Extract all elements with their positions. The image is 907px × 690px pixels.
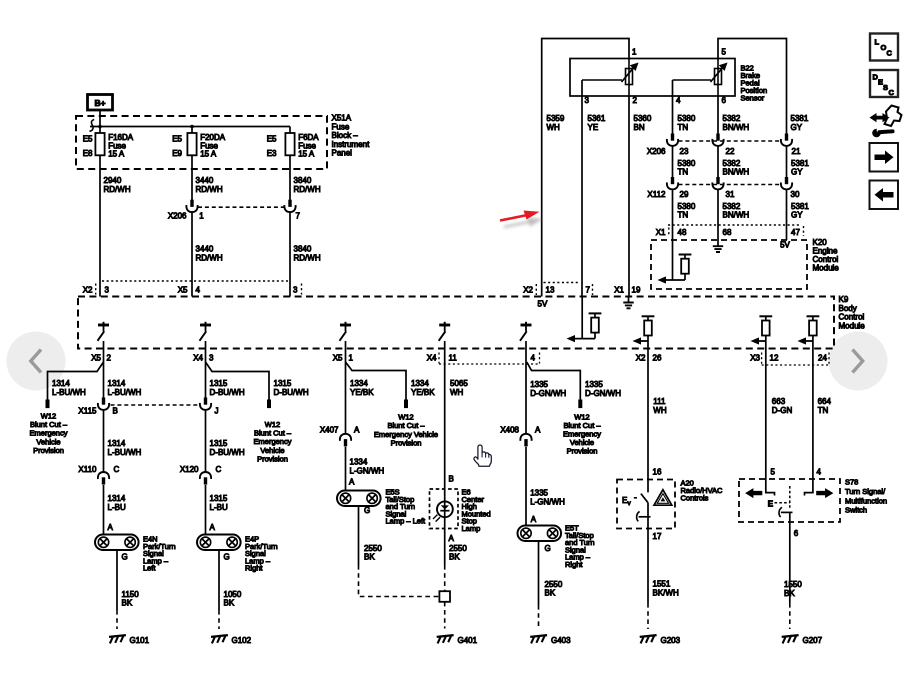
svg-text:1: 1 [349, 354, 354, 363]
svg-text:D-GN/WH: D-GN/WH [530, 389, 566, 398]
svg-text:5382: 5382 [723, 114, 741, 123]
svg-text:19: 19 [632, 286, 641, 295]
wire 1551 BK/WH [647, 529, 649, 604]
svg-text:L-BU: L-BU [210, 503, 228, 512]
wire 3840 RD/WH upper [289, 155, 291, 200]
wire 1314 L-BU/WH lower [103, 411, 105, 473]
svg-text:29: 29 [680, 190, 689, 199]
back arrow button [870, 181, 899, 210]
BCM driver switch right stop/turn output [521, 324, 532, 327]
wire to pin 6 [789, 512, 791, 529]
svg-text:BN/WH: BN/WH [723, 211, 750, 220]
svg-text:A: A [349, 478, 355, 487]
svg-text:TN: TN [678, 168, 689, 177]
svg-text:1314: 1314 [52, 379, 70, 388]
svg-text:47: 47 [791, 228, 800, 237]
svg-text:1550: 1550 [784, 580, 802, 589]
svg-text:1335: 1335 [530, 489, 548, 498]
svg-text:Switch: Switch [845, 506, 867, 515]
ground G403 [530, 635, 547, 637]
svg-text:X112: X112 [647, 190, 666, 199]
branch to W12 [346, 362, 407, 400]
svg-text:E3: E3 [267, 149, 277, 158]
sensor B22 box [570, 59, 735, 97]
BCM driver switch right park/turn output [200, 324, 211, 327]
mouse cursor [474, 445, 491, 466]
svg-text:11: 11 [449, 354, 458, 363]
connector X112 pin 30 [785, 177, 788, 184]
BCM internal ground pin 19 [628, 297, 630, 303]
svg-text:5: 5 [722, 48, 727, 57]
wire 1550 BK [789, 529, 791, 603]
svg-text:G102: G102 [232, 636, 252, 645]
wire 2550 BK (left) [358, 506, 360, 565]
lamp E6 CHMSL dashed box [430, 489, 459, 529]
svg-text:A: A [535, 426, 541, 435]
svg-text:3: 3 [293, 286, 298, 295]
BCM internal resistor + arrow (pin 12) [759, 315, 772, 317]
svg-text:BN/WH: BN/WH [723, 168, 750, 177]
wire 1315 D-BU/WH [205, 349, 207, 400]
svg-text:1050: 1050 [224, 590, 242, 599]
svg-text:D-GN/WH: D-GN/WH [585, 389, 621, 398]
S78 turn signal / multifunction switch dashed box [739, 479, 840, 522]
svg-text:G207: G207 [803, 636, 823, 645]
ECM ground pin 68 [713, 246, 723, 252]
svg-text:3: 3 [105, 286, 110, 295]
svg-text:X408: X408 [500, 426, 519, 435]
svg-text:21: 21 [792, 147, 801, 156]
svg-text:W12: W12 [398, 413, 413, 422]
svg-text:L-GN/WH: L-GN/WH [530, 498, 565, 507]
svg-text:13: 13 [546, 286, 555, 295]
wire 5382 BN/WH lower [717, 190, 719, 246]
svg-text:X1: X1 [656, 228, 666, 237]
svg-text:TN: TN [678, 123, 689, 132]
lamp E6 symbol [437, 501, 453, 517]
svg-text:5380: 5380 [678, 202, 696, 211]
wire 1335 D-GN/WH [525, 349, 527, 434]
svg-text:BK: BK [545, 589, 556, 598]
svg-text:A: A [531, 515, 537, 524]
battery feed B+ [88, 95, 113, 111]
svg-text:15 A: 15 A [108, 150, 125, 159]
svg-text:B: B [449, 475, 454, 484]
wire 2550 BK (CHMSL) [444, 529, 446, 566]
svg-text:15 A: 15 A [298, 150, 315, 159]
svg-text:G: G [364, 506, 370, 515]
fuse F20DA 15A [187, 133, 196, 155]
svg-text:1: 1 [199, 212, 204, 221]
svg-text:RD/WH: RD/WH [294, 185, 321, 194]
connector X206 pin 1 [190, 200, 193, 207]
ground G203 [640, 635, 657, 637]
svg-text:2550: 2550 [545, 580, 563, 589]
svg-text:1334: 1334 [350, 458, 368, 467]
wire 5359 WH from sensor circuit [542, 39, 629, 297]
svg-text:TN: TN [818, 406, 829, 415]
svg-text:E5: E5 [83, 135, 93, 144]
svg-text:2: 2 [633, 96, 638, 105]
svg-text:4: 4 [531, 354, 536, 363]
svg-text:GY: GY [791, 211, 803, 220]
svg-text:3840: 3840 [294, 176, 312, 185]
svg-text:22: 22 [726, 147, 735, 156]
svg-text:RD/WH: RD/WH [104, 185, 131, 194]
lamp E4P park/turn right [197, 535, 241, 551]
svg-text:RD/WH: RD/WH [294, 254, 321, 263]
svg-text:5361: 5361 [588, 114, 606, 123]
wire 1334 L-GN/WH [345, 447, 347, 491]
svg-text:L-GN/WH: L-GN/WH [350, 467, 385, 476]
svg-text:3: 3 [585, 96, 590, 105]
svg-text:WH: WH [547, 123, 561, 132]
svg-text:C: C [889, 88, 895, 97]
svg-text:Body: Body [839, 304, 857, 313]
ground G101 [109, 635, 126, 637]
svg-text:X115: X115 [78, 407, 97, 416]
svg-text:24: 24 [818, 354, 827, 363]
svg-text:7: 7 [586, 286, 591, 295]
wire 2550 BK (right) [538, 541, 540, 605]
svg-text:5381: 5381 [791, 159, 809, 168]
svg-text:GY: GY [791, 168, 803, 177]
svg-text:D-GN: D-GN [772, 406, 793, 415]
svg-text:Block –: Block – [332, 131, 359, 140]
fuse F6DA 15A [285, 133, 294, 155]
bus wire from B+ across fuses [90, 126, 290, 128]
svg-text:1315: 1315 [210, 439, 228, 448]
wrench icon [872, 129, 881, 138]
wire 1315 L-BU [205, 485, 207, 535]
wire 5361 YE [581, 80, 583, 297]
wire 3440 RD/WH upper [191, 155, 193, 200]
svg-text:G: G [545, 544, 551, 553]
wire 1150 BK [116, 550, 118, 610]
svg-text:C: C [887, 49, 893, 58]
BCM internal resistor + arrow (pin 26) [642, 315, 655, 317]
svg-text:BK: BK [224, 599, 235, 608]
svg-text:3840: 3840 [294, 245, 312, 254]
potentiometer 2 [715, 69, 722, 85]
svg-text:Fuse: Fuse [332, 122, 350, 131]
svg-text:WH: WH [450, 388, 464, 397]
svg-text:L-BU/WH: L-BU/WH [52, 388, 86, 397]
svg-text:7: 7 [296, 212, 301, 221]
blunt cut W12 [578, 400, 582, 409]
connector X115 pin J [204, 398, 207, 405]
svg-text:1334: 1334 [350, 379, 368, 388]
lamp E5T tail/stop right [518, 526, 562, 542]
svg-text:G: G [224, 553, 230, 562]
blunt cut W12 (far left) [46, 400, 50, 409]
wire 1050 BK [218, 550, 220, 610]
wire 5380 TN upper [672, 80, 674, 134]
dotted connector frame pins 12/24 [761, 353, 763, 365]
dotted connector frame pins 11/4 [438, 353, 440, 364]
svg-text:3: 3 [209, 354, 214, 363]
svg-text:1314: 1314 [108, 379, 126, 388]
svg-text:48: 48 [678, 228, 687, 237]
svg-text:B: B [113, 407, 118, 416]
svg-text:30: 30 [791, 190, 800, 199]
ECM arrow [662, 279, 686, 281]
ground G401 [437, 635, 454, 637]
pushbutton actuator [637, 512, 640, 522]
svg-text:L-BU: L-BU [108, 503, 126, 512]
svg-text:Lamp: Lamp [462, 524, 481, 533]
svg-text:G203: G203 [661, 636, 681, 645]
right turn contact [805, 479, 813, 496]
svg-text:3440: 3440 [196, 245, 214, 254]
next arrow button [870, 143, 899, 172]
svg-text:23: 23 [680, 147, 689, 156]
BCM internal resistor + arrow (pin 7 input) [581, 297, 583, 339]
splice squiggle [89, 120, 94, 132]
svg-text:G403: G403 [551, 636, 571, 645]
svg-text:12: 12 [770, 354, 779, 363]
svg-text:5359: 5359 [547, 114, 565, 123]
wire drop to fuse F20DA [191, 127, 193, 134]
svg-text:Emergency Vehicle: Emergency Vehicle [374, 430, 438, 439]
potentiometer 1 wiper [582, 79, 622, 81]
branch to W12 [527, 362, 581, 400]
wire 5380 TN mid [672, 147, 674, 178]
svg-text:Provision: Provision [391, 439, 422, 448]
svg-text:TN: TN [678, 211, 689, 220]
left arrow symbol [745, 488, 762, 498]
svg-text:1315: 1315 [210, 379, 228, 388]
svg-text:A: A [108, 523, 114, 532]
svg-text:1315: 1315 [210, 494, 228, 503]
svg-text:4: 4 [817, 468, 822, 477]
svg-text:5382: 5382 [723, 202, 741, 211]
svg-text:D-BU/WH: D-BU/WH [210, 448, 245, 457]
svg-text:5065: 5065 [450, 379, 468, 388]
connector X112 pin 31 [716, 177, 719, 184]
svg-text:6: 6 [794, 529, 799, 538]
svg-text:X2: X2 [523, 286, 533, 295]
svg-text:Sensor: Sensor [741, 94, 765, 103]
svg-text:26: 26 [653, 354, 662, 363]
potentiometer 1 [626, 69, 633, 85]
svg-text:BK/WH: BK/WH [653, 589, 679, 598]
svg-text:1335: 1335 [530, 380, 548, 389]
ECM pull-up resistor [679, 254, 692, 256]
connector X206 pin 22 [716, 134, 719, 141]
svg-text:X5: X5 [333, 354, 343, 363]
svg-text:5381: 5381 [791, 114, 809, 123]
lamp E4N park/turn left [95, 535, 139, 551]
wire 5381 GY top run [718, 39, 787, 134]
svg-text:Right: Right [245, 564, 263, 573]
svg-text:BN: BN [634, 123, 645, 132]
engine control module K20 dashed box [651, 240, 807, 289]
potentiometer 2 wiper [673, 79, 712, 81]
svg-text:Lamp – Left: Lamp – Left [386, 517, 427, 526]
wire 5360 BN [628, 96, 630, 297]
wire 1315 D-BU/WH lower [205, 411, 207, 473]
svg-text:RD/WH: RD/WH [196, 185, 223, 194]
svg-text:6: 6 [722, 96, 727, 105]
svg-text:X5: X5 [178, 286, 188, 295]
svg-text:Blunt Cut –: Blunt Cut – [387, 421, 425, 430]
svg-text:663: 663 [772, 397, 786, 406]
svg-text:X407: X407 [320, 426, 339, 435]
connector X110 pin C [98, 472, 109, 479]
svg-text:X2: X2 [83, 286, 93, 295]
splice S401 box [439, 591, 450, 602]
BCM top pins X2-3 X5-4 3 [102, 280, 288, 282]
wire 1334 YE/BK [345, 349, 347, 434]
wire 3840 RD/WH lower [289, 213, 291, 297]
svg-text:A: A [354, 426, 360, 435]
svg-text:G401: G401 [458, 636, 478, 645]
svg-text:Module: Module [839, 321, 866, 330]
body control module K9 dashed box [78, 297, 834, 349]
svg-text:Control: Control [839, 313, 865, 322]
svg-text:X110: X110 [78, 465, 97, 474]
svg-text:2550: 2550 [364, 544, 382, 553]
svg-text:BK: BK [784, 589, 795, 598]
svg-text:G: G [122, 553, 128, 562]
wire 3440 RD/WH lower [191, 213, 193, 297]
svg-text:5382: 5382 [723, 159, 741, 168]
DESC button [870, 70, 898, 97]
svg-text:15 A: 15 A [200, 150, 217, 159]
svg-text:Multifunction: Multifunction [845, 496, 887, 505]
wire 5382 BN/WH mid [717, 147, 719, 178]
svg-text:2940: 2940 [104, 176, 122, 185]
svg-text:YE/BK: YE/BK [350, 388, 374, 397]
left turn contact [766, 479, 775, 496]
wire 5065 WH [444, 349, 446, 502]
connector X115 pin B [102, 398, 105, 405]
svg-text:1335: 1335 [585, 380, 603, 389]
svg-text:E8: E8 [83, 149, 93, 158]
svg-text:E5: E5 [267, 135, 277, 144]
A20 radio/HVAC controls dashed box [617, 480, 675, 529]
svg-text:RD/WH: RD/WH [196, 254, 223, 263]
svg-text:5380: 5380 [678, 159, 696, 168]
svg-text:X206: X206 [168, 212, 187, 221]
wire 1314 L-BU [103, 485, 105, 535]
svg-text:C: C [216, 465, 222, 474]
wire B+ to fuse F16DA [99, 110, 101, 133]
ground G207 [782, 635, 799, 637]
svg-text:GY: GY [791, 123, 803, 132]
svg-text:Controls: Controls [681, 493, 709, 502]
svg-text:K9: K9 [839, 295, 849, 304]
X206 dashed link right [679, 140, 782, 142]
svg-text:L-BU/WH: L-BU/WH [108, 448, 142, 457]
svg-text:111: 111 [653, 397, 666, 406]
X115 dashed link [111, 404, 200, 406]
wiring pigtail icon [870, 113, 890, 122]
hazard switch contacts [647, 480, 649, 493]
svg-text:J: J [215, 407, 219, 416]
svg-text:Right: Right [565, 560, 583, 569]
svg-text:3440: 3440 [196, 176, 214, 185]
svg-text:Provision: Provision [567, 447, 598, 456]
wire 663 D-GN [765, 349, 767, 480]
BCM driver switch left stop/turn output [340, 324, 351, 327]
connector X407 pin A [340, 434, 351, 441]
svg-text:5381: 5381 [791, 202, 809, 211]
branch to W12 left [48, 362, 104, 400]
svg-text:E: E [768, 500, 774, 509]
blunt cut W12 [404, 400, 408, 409]
svg-text:1334: 1334 [411, 379, 429, 388]
svg-text:E9: E9 [172, 149, 182, 158]
svg-text:2: 2 [107, 354, 112, 363]
junction dot [98, 125, 102, 129]
svg-text:G101: G101 [130, 636, 150, 645]
svg-text:S78: S78 [845, 478, 858, 487]
svg-text:E5: E5 [172, 135, 182, 144]
wire 2940 RD/WH [99, 155, 101, 296]
svg-text:1: 1 [632, 48, 637, 57]
wire 5382 BN/WH upper [717, 96, 719, 134]
svg-text:68: 68 [723, 228, 732, 237]
svg-text:1150: 1150 [122, 590, 140, 599]
ECM wire pin 48 [672, 240, 674, 280]
svg-text:1314: 1314 [108, 439, 126, 448]
svg-text:Left: Left [143, 564, 156, 573]
svg-text:Instrument: Instrument [332, 140, 371, 149]
svg-text:L: L [875, 38, 880, 47]
svg-text:X4: X4 [427, 354, 437, 363]
svg-text:X4: X4 [193, 354, 203, 363]
svg-text:X3: X3 [750, 354, 760, 363]
hazard warning triangle [654, 490, 672, 506]
BCM driver switch left park/turn output [98, 324, 109, 327]
svg-text:31: 31 [726, 190, 735, 199]
svg-text:C: C [114, 465, 120, 474]
connector X120 pin C [200, 472, 211, 479]
svg-text:Turn Signal/: Turn Signal/ [845, 487, 886, 496]
svg-text:17: 17 [653, 532, 662, 541]
svg-text:S: S [883, 83, 888, 92]
svg-text:1314: 1314 [108, 494, 126, 503]
fuse block X51A dashed box [76, 116, 327, 169]
connector X112 pin 29 [671, 177, 674, 184]
wire drop to fuse F6DA [289, 127, 291, 134]
wire 111 WH [647, 349, 649, 480]
ground G102 [211, 635, 228, 637]
svg-text:BK: BK [364, 553, 375, 562]
svg-text:L-BU/WH: L-BU/WH [108, 388, 142, 397]
wire 5381 GY lower [786, 190, 788, 240]
svg-text:BN/WH: BN/WH [723, 123, 750, 132]
svg-text:5: 5 [771, 468, 776, 477]
svg-text:X1: X1 [614, 286, 624, 295]
svg-text:X5: X5 [91, 354, 101, 363]
svg-text:X120: X120 [180, 465, 199, 474]
red annotation arrow shadow [504, 218, 543, 228]
svg-text:5360: 5360 [634, 114, 652, 123]
svg-text:B+: B+ [94, 98, 105, 108]
svg-text:D-BU/WH: D-BU/WH [210, 388, 245, 397]
connector X206 dashed link [198, 206, 284, 208]
svg-text:4: 4 [196, 286, 201, 295]
blunt cut W12 [267, 400, 271, 409]
connector X206 pin 7 [288, 200, 291, 207]
svg-text:4: 4 [676, 96, 681, 105]
svg-text:D-BU/WH: D-BU/WH [274, 388, 309, 397]
connector X1 dotted row [668, 224, 801, 226]
X112 dashed link [679, 184, 782, 186]
